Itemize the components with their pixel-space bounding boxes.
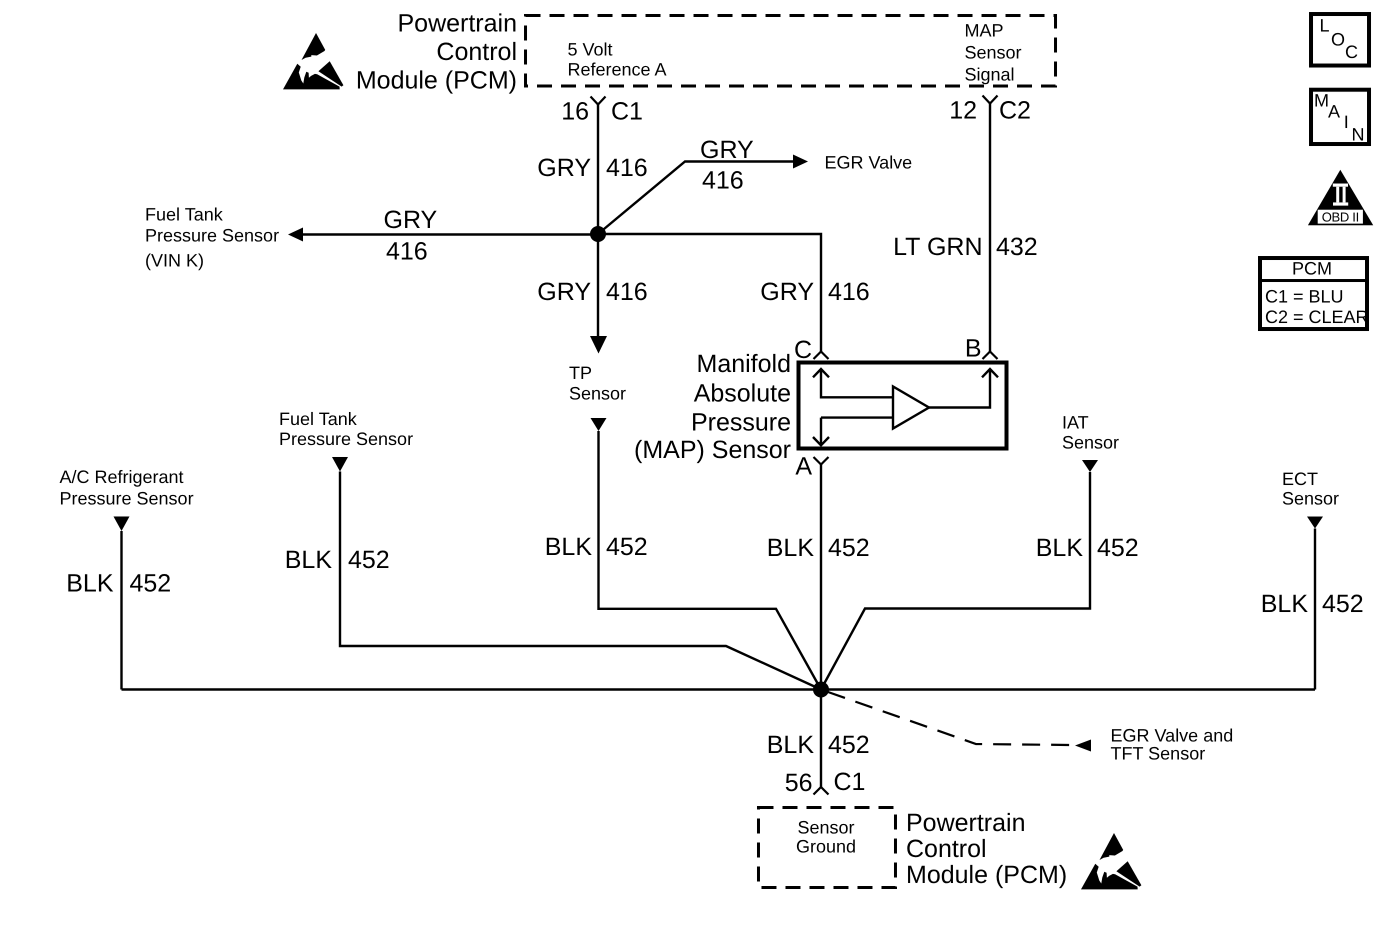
wire BLK 452 from A/C sensor xyxy=(120,531,122,690)
svg-text:56: 56 xyxy=(785,769,813,797)
svg-text:C: C xyxy=(1345,42,1358,62)
svg-text:L: L xyxy=(1320,16,1330,36)
svg-text:I: I xyxy=(1344,112,1349,132)
svg-text:C1: C1 xyxy=(611,97,643,125)
TP sensor terminal xyxy=(591,418,607,431)
svg-text:EGR Valve: EGR Valve xyxy=(825,153,913,173)
label EGR Valve and TFT Sensor xyxy=(1110,726,1233,764)
fuel tank sensor terminal xyxy=(332,457,348,472)
wire GRY 416 to MAP terminal C xyxy=(598,234,821,352)
svg-text:Sensor: Sensor xyxy=(797,818,854,838)
svg-text:Sensor: Sensor xyxy=(1282,489,1339,509)
svg-text:A: A xyxy=(795,453,812,481)
svg-text:BLK: BLK xyxy=(767,731,815,759)
ground bus wire xyxy=(121,688,1315,690)
svg-text:M: M xyxy=(1314,90,1329,110)
label GRY 416 (TP drop) xyxy=(537,278,647,306)
svg-text:BLK: BLK xyxy=(545,533,593,561)
svg-text:Pressure Sensor: Pressure Sensor xyxy=(279,429,413,449)
svg-text:416: 416 xyxy=(828,278,870,306)
svg-text:IAT: IAT xyxy=(1062,413,1089,433)
LOC box xyxy=(1311,14,1369,66)
MAP sensor label xyxy=(634,350,791,464)
svg-text:452: 452 xyxy=(828,534,870,562)
PCM label bottom xyxy=(906,809,1067,889)
svg-text:GRY: GRY xyxy=(537,154,591,182)
A/C Refrigerant Pressure Sensor label xyxy=(59,467,193,509)
svg-text:Fuel Tank: Fuel Tank xyxy=(145,204,224,224)
svg-text:C1: C1 xyxy=(833,768,865,796)
dashed wire to EGR Valve and TFT Sensor xyxy=(828,692,1072,745)
svg-text:Sensor: Sensor xyxy=(1062,433,1119,453)
svg-text:Manifold: Manifold xyxy=(697,350,792,378)
svg-text:ECT: ECT xyxy=(1282,469,1318,489)
svg-text:PCM: PCM xyxy=(1292,259,1332,279)
label GRY 416 (upper) xyxy=(537,154,647,182)
svg-text:Control: Control xyxy=(436,38,517,66)
svg-text:Pressure: Pressure xyxy=(691,409,791,437)
wire BLK 452 from IAT sensor xyxy=(821,472,1090,690)
svg-text:416: 416 xyxy=(702,167,744,195)
svg-text:TFT Sensor: TFT Sensor xyxy=(1110,744,1205,764)
Sensor Ground box (dashed) xyxy=(758,808,895,888)
op-amp buffer xyxy=(893,387,929,429)
svg-text:Powertrain: Powertrain xyxy=(398,9,518,37)
svg-text:452: 452 xyxy=(1097,534,1139,562)
svg-text:(VIN K): (VIN K) xyxy=(145,250,204,270)
svg-text:C2: C2 xyxy=(999,97,1031,125)
svg-text:BLK: BLK xyxy=(285,546,333,574)
svg-text:MAP: MAP xyxy=(965,21,1004,41)
svg-text:GRY: GRY xyxy=(760,278,814,306)
svg-text:Pressure Sensor: Pressure Sensor xyxy=(59,488,193,508)
svg-text:A/C Refrigerant: A/C Refrigerant xyxy=(59,467,183,487)
ESD symbol top left xyxy=(283,33,343,89)
ground junction node xyxy=(813,682,829,698)
wire GRY 416 down to TP Sensor with arrow xyxy=(597,234,599,338)
label BLK 452 (fuel tank) xyxy=(285,546,390,574)
svg-text:TP: TP xyxy=(569,363,592,383)
Fuel Tank Pressure Sensor label (middle) xyxy=(279,409,413,449)
svg-text:Sensor: Sensor xyxy=(569,383,626,403)
MAP internal input A arrow xyxy=(813,418,893,446)
wire BLK 452 from fuel tank sensor xyxy=(340,471,821,689)
wire BLK 452 from ECT sensor xyxy=(1314,529,1316,690)
label BLK 452 (A/C) xyxy=(66,569,171,597)
svg-text:452: 452 xyxy=(348,546,390,574)
svg-text:C: C xyxy=(794,336,812,364)
label GRY 416 (fuel tank arrow) xyxy=(384,206,438,266)
svg-text:Reference A: Reference A xyxy=(568,60,667,80)
label BLK 452 (MAP A) xyxy=(767,534,870,562)
svg-text:416: 416 xyxy=(606,278,648,306)
connector pin 12 C2 xyxy=(949,96,1031,125)
svg-text:LT GRN: LT GRN xyxy=(893,233,982,261)
MAP internal output arrow xyxy=(929,369,998,408)
ESD symbol bottom right xyxy=(1081,833,1141,889)
MAP sensor box xyxy=(799,363,1007,449)
svg-text:452: 452 xyxy=(828,731,870,759)
svg-text:BLK: BLK xyxy=(1261,590,1309,618)
OBD II symbol xyxy=(1308,170,1373,225)
node GRY splice xyxy=(590,226,606,242)
wire GRY 416 from pin 16 C1 xyxy=(597,104,599,234)
label Sensor Ground xyxy=(796,818,856,857)
svg-text:N: N xyxy=(1352,125,1365,145)
connector terminal C xyxy=(794,336,829,364)
svg-text:B: B xyxy=(965,335,982,363)
svg-text:Ground: Ground xyxy=(796,837,856,857)
svg-text:GRY: GRY xyxy=(384,206,438,234)
label BLK 452 (bottom) xyxy=(767,731,870,759)
PCM connector box top (dashed) xyxy=(526,15,1056,86)
svg-text:BLK: BLK xyxy=(767,534,815,562)
svg-text:Signal: Signal xyxy=(965,65,1015,85)
connector pin 16 C1 xyxy=(561,96,643,125)
PCM connector legend box xyxy=(1258,258,1369,329)
svg-text:432: 432 xyxy=(996,233,1038,261)
svg-text:OBD II: OBD II xyxy=(1322,209,1359,224)
MAIN box xyxy=(1311,90,1369,145)
svg-text:16: 16 xyxy=(561,97,589,125)
svg-text:Absolute: Absolute xyxy=(694,380,791,408)
svg-text:A: A xyxy=(1328,101,1340,121)
svg-text:5 Volt: 5 Volt xyxy=(568,39,613,59)
label TP Sensor xyxy=(569,363,626,404)
svg-text:416: 416 xyxy=(606,154,648,182)
svg-text:Module (PCM): Module (PCM) xyxy=(356,66,517,94)
svg-text:GRY: GRY xyxy=(537,278,591,306)
label BLK 452 (IAT) xyxy=(1036,534,1139,562)
IAT sensor terminal xyxy=(1082,460,1098,472)
connector terminal B xyxy=(965,335,998,363)
wire BLK 452 from TP sensor xyxy=(598,431,821,690)
svg-text:Pressure Sensor: Pressure Sensor xyxy=(145,225,279,245)
connector terminal A xyxy=(795,453,828,481)
svg-text:GRY: GRY xyxy=(700,136,754,164)
connector pin 56 C1 xyxy=(785,768,866,797)
net label 5 Volt Reference A xyxy=(568,39,667,79)
svg-text:C1 = BLU: C1 = BLU xyxy=(1265,287,1344,307)
svg-text:452: 452 xyxy=(1322,590,1364,618)
svg-text:416: 416 xyxy=(386,237,428,265)
A/C sensor terminal xyxy=(113,516,129,531)
label BLK 452 (ECT) xyxy=(1261,590,1364,618)
svg-text:Sensor: Sensor xyxy=(965,43,1022,63)
svg-text:(MAP) Sensor: (MAP) Sensor xyxy=(634,436,791,464)
wire to EGR Valve with arrow xyxy=(598,161,793,234)
wire BLK 452 to PCM pin 56 C1 xyxy=(820,690,822,788)
IAT Sensor label xyxy=(1062,413,1119,453)
svg-text:BLK: BLK xyxy=(1036,534,1084,562)
label BLK 452 (TP) xyxy=(545,533,648,561)
label Fuel Tank Pressure Sensor (VIN K) xyxy=(145,204,279,270)
svg-text:O: O xyxy=(1331,30,1345,50)
net label MAP Sensor Signal xyxy=(965,21,1022,85)
ECT sensor terminal xyxy=(1307,517,1323,529)
svg-text:12: 12 xyxy=(949,97,977,125)
svg-text:Powertrain: Powertrain xyxy=(906,809,1026,837)
MAP internal input C arrow xyxy=(813,369,893,397)
svg-text:452: 452 xyxy=(606,533,648,561)
wire LT GRN 432 from pin 12 C2 to MAP terminal B xyxy=(989,104,991,352)
svg-text:452: 452 xyxy=(129,569,171,597)
svg-text:C2 = CLEAR: C2 = CLEAR xyxy=(1265,307,1369,327)
label LT GRN 432 xyxy=(893,233,1038,261)
svg-text:Module (PCM): Module (PCM) xyxy=(906,861,1067,889)
PCM label top xyxy=(356,9,517,94)
label GRY 416 (EGR stub) xyxy=(700,136,754,195)
svg-text:Fuel Tank: Fuel Tank xyxy=(279,409,358,429)
svg-text:BLK: BLK xyxy=(66,569,114,597)
label GRY 416 (MAP C drop) xyxy=(760,278,869,306)
wire BLK 452 from MAP A to ground junction xyxy=(820,465,822,690)
ECT Sensor label xyxy=(1282,469,1339,509)
svg-text:Control: Control xyxy=(906,835,987,863)
wire to Fuel Tank Pressure Sensor with arrow xyxy=(302,233,598,235)
